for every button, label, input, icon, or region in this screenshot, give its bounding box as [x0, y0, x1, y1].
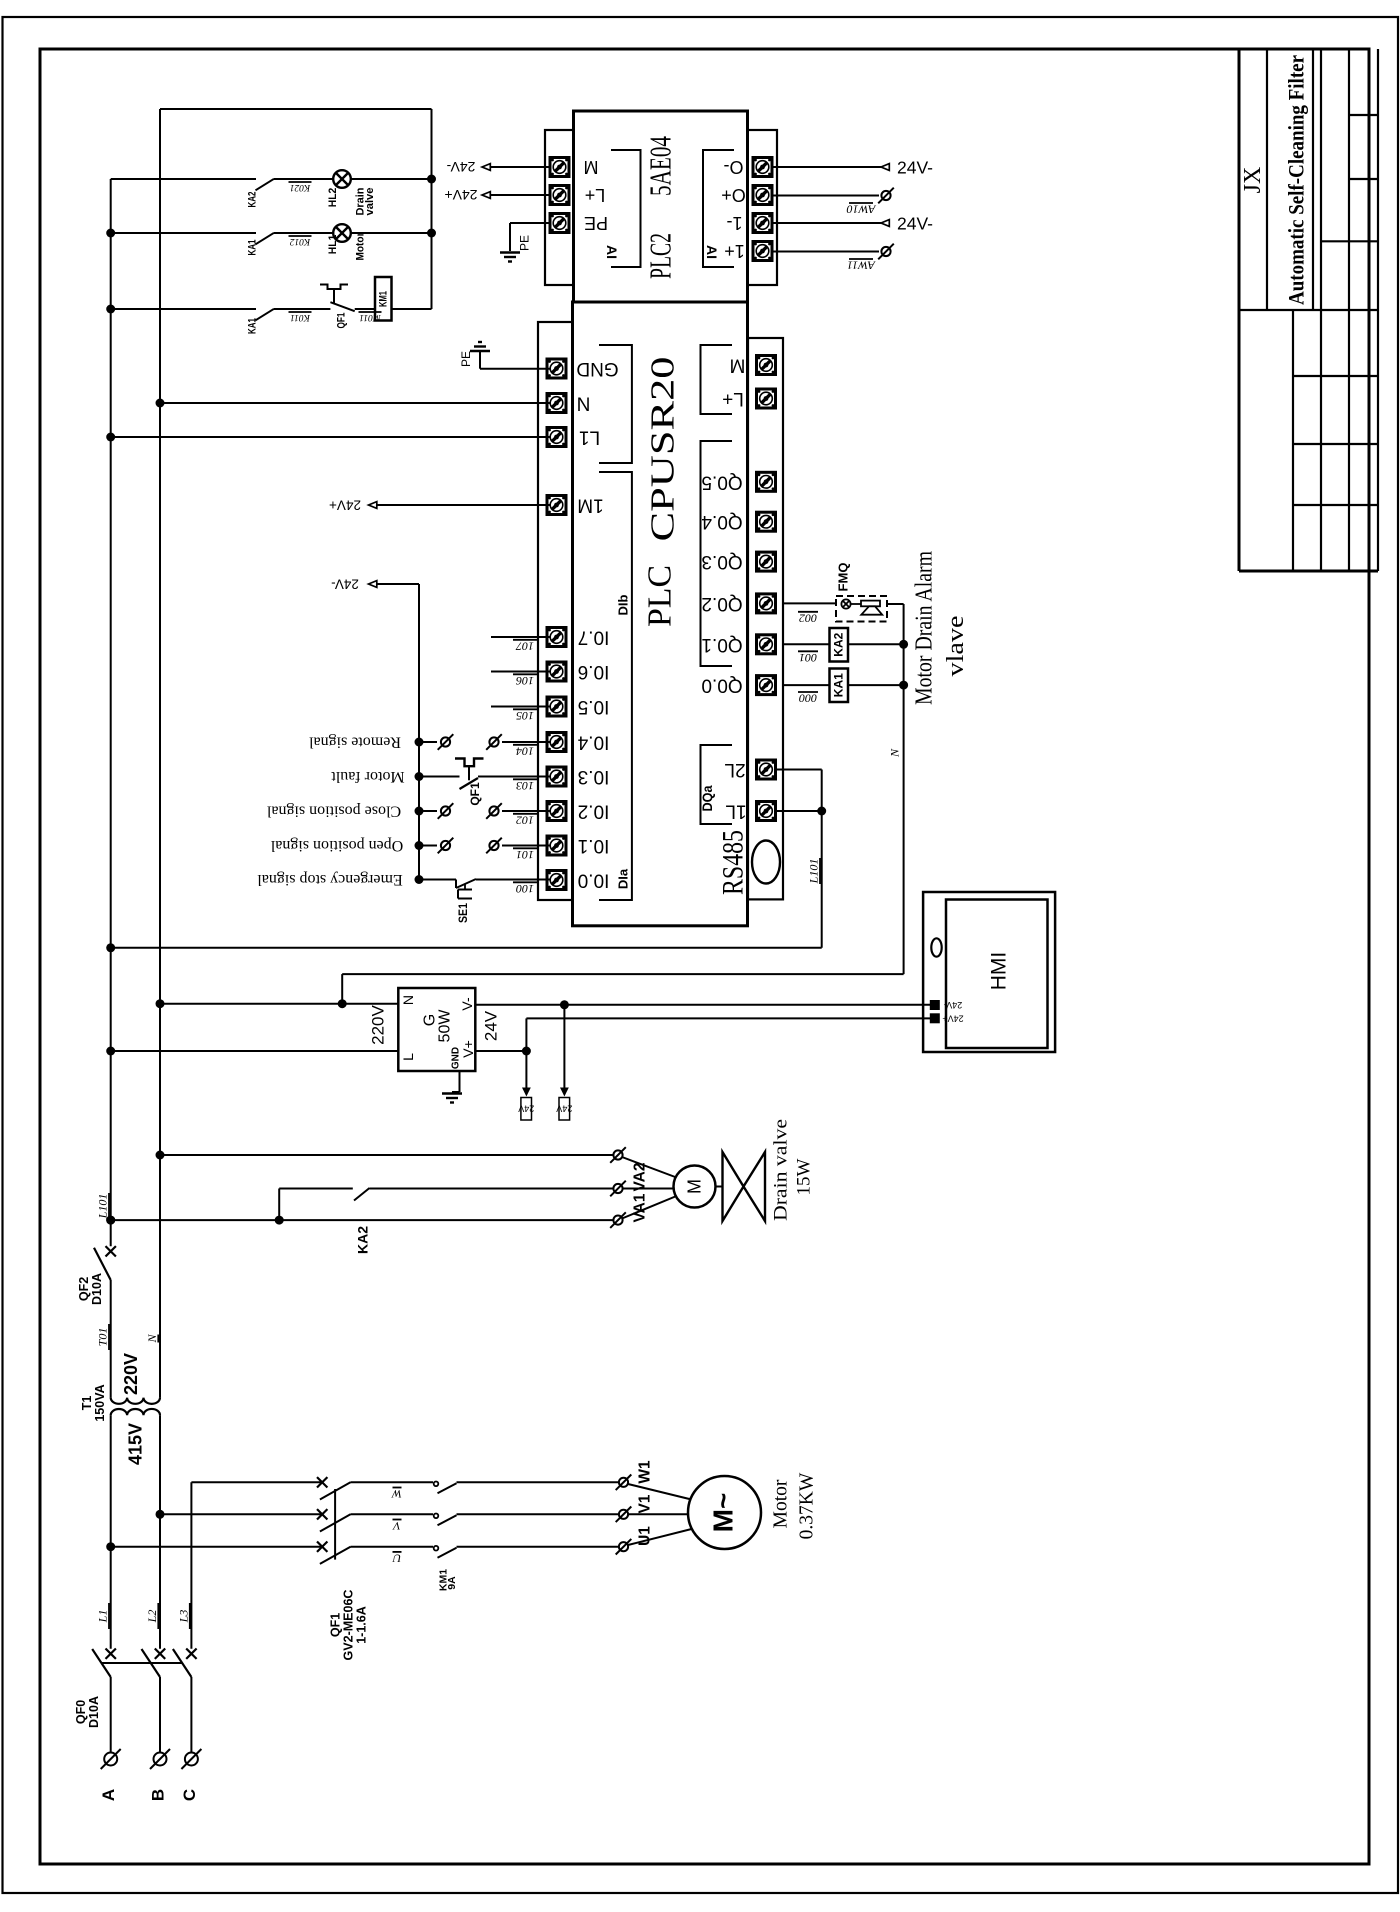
wire phase B bus below transformer: [159, 1415, 161, 1649]
wire Remote signal row: [419, 741, 437, 743]
svg-text:24V+: 24V+: [444, 187, 477, 203]
wire stub I0.6: [491, 671, 550, 673]
connector V1: [616, 1507, 632, 1523]
terminal PLC Q0.3: [757, 552, 776, 571]
svg-text:24V: 24V: [518, 1104, 534, 1114]
svg-text:V: V: [392, 1519, 401, 1533]
wire L101 bus below QF2: [110, 1280, 112, 1398]
contact KA2 (rung 1): [256, 179, 275, 191]
svg-text:Motor: Motor: [355, 232, 367, 261]
boxed label 24V (left): [521, 1098, 532, 1121]
PLC bracket Q0.x: [701, 441, 733, 666]
PLC2 right terminal strip: [748, 130, 778, 285]
wire V+ tail: [475, 1050, 526, 1052]
junction rung3/L101 bus: [106, 305, 115, 314]
svg-text:M: M: [584, 157, 599, 177]
terminal PLC2 O-: [753, 158, 772, 177]
junction supply L/bus: [106, 1047, 115, 1056]
junction drain bottom/bus: [106, 1216, 115, 1225]
wire PLC2 PE to ground: [510, 222, 550, 224]
wire W1 to motor: [628, 1484, 696, 1501]
transformer T1 primary 415V: [111, 1409, 160, 1415]
svg-text:L+: L+: [722, 388, 744, 409]
svg-text:Q0.3: Q0.3: [701, 551, 742, 572]
svg-text:M~: M~: [708, 1493, 739, 1533]
junction close/24V-: [415, 807, 424, 816]
wire PLC2 1+ to AW11: [771, 251, 879, 253]
svg-text:104: 104: [516, 744, 534, 758]
wire number 106: [513, 674, 537, 688]
svg-text:102: 102: [516, 813, 534, 827]
svg-text:24V: 24V: [482, 1010, 501, 1041]
wire number U (row3): [391, 1551, 401, 1565]
svg-text:QF1: QF1: [468, 782, 482, 806]
svg-text:105: 105: [516, 709, 534, 723]
HMI inner box: [946, 900, 1048, 1049]
svg-text:Q0.2: Q0.2: [701, 593, 742, 614]
terminal PLC L+: [757, 389, 776, 408]
junction L1 row / L101 bus: [106, 433, 115, 442]
svg-text:Emergency stop signal: Emergency stop signal: [257, 871, 403, 888]
svg-text:24V-: 24V-: [446, 159, 475, 175]
svg-text:106: 106: [516, 674, 534, 688]
wire relay right rail: [431, 109, 433, 309]
coil KA1: [830, 669, 849, 703]
svg-text:QF1: QF1: [336, 313, 348, 329]
svg-text:VA2: VA2: [632, 1162, 649, 1191]
svg-text:W: W: [391, 1487, 402, 1501]
svg-text:1L: 1L: [725, 801, 746, 822]
terminal PLC I0.2: [547, 802, 566, 821]
svg-text:50W: 50W: [437, 1009, 454, 1043]
junction KA2/N rail: [899, 640, 908, 649]
svg-text:QF2: QF2: [77, 1277, 91, 1301]
valve symbol: [723, 1152, 744, 1221]
svg-text:DIa: DIa: [616, 868, 631, 889]
wire number K021: [289, 182, 312, 192]
svg-text:L: L: [400, 1053, 416, 1061]
wire number V (row2): [392, 1519, 402, 1533]
svg-text:220V: 220V: [369, 1004, 388, 1044]
wire Open position row: [419, 845, 437, 847]
wire stub I0.5: [491, 706, 550, 708]
svg-text:000: 000: [799, 692, 817, 706]
svg-text:B: B: [148, 1789, 167, 1801]
wire motor to valve: [716, 1186, 744, 1188]
svg-text:107: 107: [515, 639, 534, 653]
svg-text:0.37KW: 0.37KW: [797, 1472, 818, 1539]
svg-text:Q0.1: Q0.1: [701, 634, 742, 655]
wire number L101 (riser): [807, 858, 821, 884]
wire PLC2 L+ to 24V+: [490, 194, 550, 196]
terminal PLC I0.3: [547, 767, 566, 786]
svg-text:1M: 1M: [577, 495, 603, 516]
svg-text:24V-: 24V-: [897, 214, 933, 234]
terminal PLC I0.6: [547, 662, 566, 681]
wire PLC2 M to 24V-: [490, 166, 550, 168]
wire number 001: [798, 651, 818, 665]
svg-text:JX: JX: [1240, 167, 1266, 194]
arrow 24V- feeder: [369, 581, 377, 588]
svg-text:D10A: D10A: [87, 1696, 101, 1728]
svg-text:KA2: KA2: [247, 192, 259, 208]
connector VA2: [610, 1147, 626, 1163]
wire phase A bus below transformer: [110, 1415, 112, 1649]
wire L101 row to 1L/2L: [111, 947, 822, 949]
svg-text:24V+: 24V+: [329, 498, 361, 513]
terminal PLC Q0.1: [757, 635, 776, 654]
svg-text:Close position signal: Close position signal: [266, 803, 401, 820]
wire number 101: [513, 848, 537, 862]
HMI RS485 ellipse: [931, 938, 941, 956]
wire number 100: [513, 882, 537, 896]
connector phase C: [181, 1749, 201, 1769]
wire PLC2 O+ to AW10: [771, 195, 879, 197]
svg-text:PE: PE: [518, 235, 532, 251]
svg-text:V+: V+: [460, 1040, 476, 1058]
svg-text:24V: 24V: [556, 1104, 572, 1114]
terminal PLC2 1-: [753, 214, 772, 233]
svg-text:24V-: 24V-: [331, 577, 359, 592]
coil KA2: [830, 628, 849, 662]
svg-text:I0.6: I0.6: [578, 661, 610, 682]
svg-text:N: N: [888, 748, 902, 758]
svg-text:HMI: HMI: [988, 952, 1011, 991]
junction KA1/N rail: [899, 681, 908, 690]
wire N row: [160, 402, 550, 404]
wire KA2 drain riser: [278, 1189, 280, 1221]
wire Q0.2 to FMQ: [783, 602, 836, 604]
ground symbol PLC GND: [470, 342, 490, 351]
svg-text:L101: L101: [96, 1194, 110, 1220]
svg-text:N: N: [145, 1334, 159, 1344]
wire drain valve N feed: [160, 1154, 614, 1156]
junction N row / N bus: [156, 399, 165, 408]
svg-text:I0.3: I0.3: [578, 766, 610, 787]
wire KM1 coil rung: [111, 308, 256, 310]
junction rung2/L101 bus: [106, 229, 115, 238]
svg-text:Open position signal: Open position signal: [270, 837, 403, 854]
wire 1L to riser: [776, 810, 822, 812]
svg-text:Motor Drain Alarm: Motor Drain Alarm: [912, 551, 938, 705]
ground symbol PLC2 PE: [500, 253, 520, 262]
svg-text:15W: 15W: [794, 1158, 815, 1195]
svg-text:U: U: [391, 1551, 401, 1565]
wire 2L to L101 riser: [776, 769, 822, 771]
wire motor row C: [191, 1481, 322, 1483]
breaker QF0 link: [101, 1662, 182, 1664]
svg-text:T1: T1: [80, 1396, 94, 1411]
svg-text:I0.7: I0.7: [578, 627, 610, 648]
wire KA1 coil to N rail: [848, 684, 904, 686]
connector drain bottom: [610, 1212, 626, 1228]
svg-text:HL1: HL1: [327, 235, 339, 255]
transformer T1 secondary 220V: [111, 1398, 160, 1404]
wire Q0.0 to KA1 coil: [783, 684, 830, 686]
wire QF1 to KM1 row1: [351, 1481, 434, 1483]
wire phase A bus below QF0: [110, 1677, 112, 1753]
svg-text:1+: 1+: [724, 241, 745, 261]
junction supply N/riser: [338, 999, 347, 1008]
PLC2 left AI bracket: [611, 150, 641, 267]
wire V- to HMI: [475, 1004, 930, 1006]
power supply G 50W box: [398, 988, 475, 1071]
wire KA2 coil to N rail: [848, 643, 904, 645]
wire number L3: [176, 1603, 190, 1629]
arrow 24V+ 1M: [369, 502, 377, 509]
wire number W (row1): [391, 1487, 402, 1501]
wire supply L row: [111, 1050, 399, 1052]
svg-text:150VA: 150VA: [93, 1384, 107, 1421]
svg-text:Q0.0: Q0.0: [701, 675, 742, 696]
wire supply N row: [160, 1003, 398, 1005]
terminal PLC 1L: [757, 802, 776, 821]
wire number 000: [798, 692, 818, 706]
breaker aux contact QF1 (rung 3): [320, 285, 348, 290]
svg-text:L+: L+: [585, 185, 606, 205]
lamp HL2: [333, 170, 351, 188]
wire U1 to motor: [628, 1528, 696, 1545]
connector phase B: [150, 1749, 170, 1769]
wire PLC2 1- to 24V-: [771, 222, 881, 224]
wire motor row A: [111, 1546, 323, 1548]
HMI terminal 24V+: [930, 1014, 939, 1023]
svg-text:AW11: AW11: [847, 259, 876, 273]
terminal PLC2 PE: [550, 214, 569, 233]
wire number 103: [513, 779, 537, 793]
wire drain top angled: [622, 1157, 677, 1178]
svg-text:KA1: KA1: [832, 673, 846, 697]
wire relay top rail: [160, 108, 432, 110]
junction drain N/bus: [156, 1151, 165, 1160]
junction rowA/bus: [106, 1542, 115, 1551]
wire N bus (x=160): [159, 109, 161, 1398]
svg-text:K021: K021: [290, 182, 312, 192]
wire number AW10: [847, 203, 877, 217]
svg-text:RS485: RS485: [717, 830, 750, 895]
wire Emergency stop row: [419, 879, 456, 881]
svg-text:1-: 1-: [726, 213, 742, 233]
wire Q0.1 to KA2 coil: [783, 643, 830, 645]
wire drain L101 bottom: [111, 1219, 614, 1221]
svg-text:KA1: KA1: [247, 318, 259, 334]
svg-text:QF0: QF0: [74, 1700, 88, 1724]
connector VA1: [610, 1181, 626, 1197]
connector phase A: [101, 1749, 121, 1769]
svg-text:9A: 9A: [446, 1576, 458, 1590]
wire L1 row: [111, 436, 550, 438]
wire 24V- drop arrow: [563, 1005, 565, 1088]
svg-text:PE: PE: [459, 351, 473, 367]
svg-text:GND: GND: [576, 358, 618, 379]
breaker QF0 poles: [106, 1649, 116, 1659]
wire phase C below QF0: [190, 1677, 192, 1753]
junction L101 row/bus: [106, 943, 115, 952]
wire 24V- feeder vertical: [418, 584, 420, 880]
PLC group bracket DI: [599, 472, 632, 900]
junction emerg/24V-: [415, 875, 424, 884]
svg-text:GV2-ME06C: GV2-ME06C: [342, 1590, 356, 1661]
wire number M011: [359, 312, 382, 322]
svg-text:Motor fault: Motor fault: [331, 768, 405, 785]
svg-text:24V+: 24V+: [942, 1013, 963, 1023]
coil KM1: [375, 277, 392, 321]
wire drain middle to motor: [623, 1188, 675, 1190]
terminal PLC Q0.0: [757, 676, 776, 695]
svg-text:KA1: KA1: [247, 240, 259, 256]
svg-text:vlave: vlave: [943, 616, 969, 677]
svg-text:Q0.4: Q0.4: [701, 511, 743, 532]
svg-text:CPUSR20: CPUSR20: [645, 357, 682, 542]
terminal PLC I0.7: [547, 628, 566, 647]
svg-text:1-1.6A: 1-1.6A: [355, 1606, 369, 1644]
buzzer FMQ box: [836, 596, 887, 622]
motor M~ 0.37KW: [688, 1476, 761, 1549]
wire number 102: [513, 813, 537, 827]
svg-text:100: 100: [516, 882, 534, 896]
svg-text:24V-: 24V-: [944, 1000, 963, 1010]
svg-text:M: M: [685, 1179, 705, 1194]
svg-text:5AE04: 5AE04: [643, 136, 678, 196]
wire 1M row 24V+: [377, 504, 550, 506]
svg-text:O+: O+: [721, 185, 746, 205]
terminal PLC Q0.2: [757, 594, 776, 613]
wire Motor fault row: [419, 776, 460, 778]
wire Close position row: [419, 810, 437, 812]
svg-text:I0.1: I0.1: [578, 835, 610, 856]
svg-text:K011: K011: [290, 312, 311, 322]
terminal PLC 1M: [547, 496, 566, 515]
svg-text:V-: V-: [459, 997, 475, 1011]
motor M drain valve: [674, 1166, 716, 1208]
wire phase C bus: [190, 1482, 192, 1648]
wire N return riser: [341, 974, 343, 1004]
junction supply N/bus: [156, 999, 165, 1008]
svg-text:N: N: [400, 995, 416, 1005]
svg-text:W1: W1: [637, 1460, 654, 1484]
connector AW10: [878, 188, 894, 204]
svg-text:A: A: [99, 1789, 118, 1801]
svg-text:C: C: [180, 1789, 199, 1801]
wire 24V- feeder horizontal: [377, 583, 419, 585]
svg-text:I0.5: I0.5: [578, 696, 610, 717]
wire drain middle: [370, 1188, 614, 1190]
svg-text:PLC2: PLC2: [643, 233, 678, 279]
svg-text:FMQ: FMQ: [836, 563, 851, 592]
terminal PLC2 L+: [550, 186, 569, 205]
svg-text:M: M: [730, 355, 746, 376]
wire N return horizontal: [342, 973, 903, 975]
wire 24V+ drop arrow: [525, 1051, 527, 1088]
wire KA2 lamp rung: [111, 178, 256, 180]
wire number T01: [96, 1324, 110, 1350]
boxed label 24V (right): [559, 1098, 570, 1121]
breaker QF1 link: [334, 1489, 336, 1560]
RS485 port ellipse: [752, 841, 780, 884]
svg-text:002: 002: [799, 611, 817, 625]
junction V- drop: [560, 1000, 569, 1009]
wire number 104: [513, 744, 537, 758]
svg-text:SE1: SE1: [458, 902, 470, 923]
svg-text:24V-: 24V-: [897, 158, 933, 178]
lamp HL1: [333, 224, 351, 242]
svg-text:V1: V1: [637, 1494, 654, 1513]
wire V1 to motor: [628, 1513, 690, 1515]
terminal PLC Q0.4: [757, 512, 776, 531]
terminal PLC 2L: [757, 760, 776, 779]
terminal PLC I0.4: [547, 733, 566, 752]
wire QF1 to KM1 row2: [351, 1513, 434, 1515]
wire number K011: [289, 312, 312, 322]
contact KA1 (rung 3): [256, 309, 275, 321]
svg-text:L101: L101: [807, 859, 821, 885]
wire stub I0.7: [491, 636, 550, 638]
svg-text:K012: K012: [289, 236, 311, 246]
svg-text:L1: L1: [96, 1610, 110, 1624]
svg-text:I0.0: I0.0: [578, 870, 610, 891]
svg-text:valve: valve: [364, 188, 376, 216]
svg-text:415V: 415V: [126, 1423, 146, 1465]
HMI outer box: [923, 892, 1055, 1052]
wire GND to ground: [479, 351, 481, 369]
svg-text:Automatic Self-Cleaning Filter: Automatic Self-Cleaning Filter: [1284, 55, 1309, 305]
ground symbol supply: [442, 1094, 462, 1103]
connector U1: [616, 1539, 632, 1555]
breaker QF1 poles: [317, 1477, 327, 1487]
wire number L101 (bus): [96, 1193, 110, 1219]
terminal PLC2 M: [550, 158, 569, 177]
terminal PLC I0.0: [547, 871, 566, 890]
PLC left terminal strip: [538, 322, 573, 900]
svg-text:220V: 220V: [121, 1353, 141, 1395]
wire motor row B: [160, 1513, 322, 1515]
arrow 1- 24V-: [881, 220, 889, 227]
svg-text:001: 001: [799, 651, 817, 665]
arrow 24V+ (L+): [482, 192, 490, 199]
svg-text:2L: 2L: [724, 759, 745, 780]
svg-text:L2: L2: [145, 1610, 159, 1624]
terminal PLC I0.1: [547, 836, 566, 855]
junction V+ drop: [522, 1047, 531, 1056]
connector W1: [616, 1475, 632, 1491]
PLC2 left terminal strip: [545, 130, 574, 285]
svg-text:D10A: D10A: [90, 1273, 104, 1305]
svg-text:AI: AI: [604, 245, 620, 259]
wire number 002: [798, 611, 818, 625]
wire KA1 lamp rung: [111, 232, 256, 234]
junction motorfault/24V-: [415, 772, 424, 781]
wire number 107: [513, 639, 537, 653]
wire L101 bus upper segment (x=110.7): [110, 179, 112, 1246]
svg-text:KA2: KA2: [832, 632, 846, 656]
PLC right terminal strip: [748, 338, 783, 899]
svg-text:L3: L3: [176, 1610, 190, 1624]
buzzer FMQ speaker: [851, 603, 861, 605]
svg-text:I0.2: I0.2: [578, 801, 610, 822]
junction rowB/bus: [156, 1510, 165, 1519]
svg-text:AW10: AW10: [847, 203, 877, 217]
terminal PLC Q0.5: [757, 472, 776, 491]
wire drain bottom angled: [622, 1196, 677, 1219]
wire number 105: [513, 709, 537, 723]
terminal PLC L1: [547, 428, 566, 447]
wire number L1: [96, 1603, 110, 1629]
junction rung1/right rail: [427, 175, 436, 184]
svg-text:T01: T01: [96, 1328, 110, 1347]
svg-text:Remote signal: Remote signal: [308, 734, 401, 751]
contact KA1 (rung 2): [256, 233, 275, 245]
svg-text:L1: L1: [579, 427, 600, 448]
